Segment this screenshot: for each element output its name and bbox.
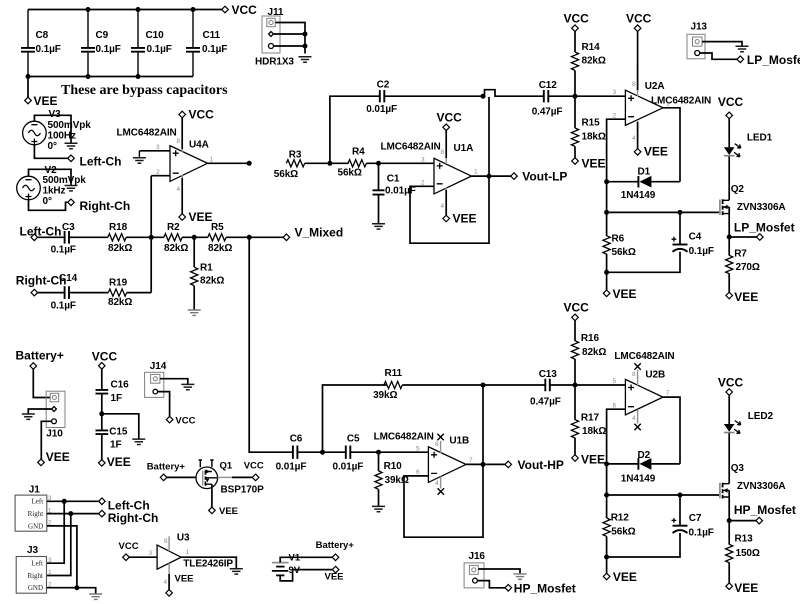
resistor R7 xyxy=(726,237,760,292)
wire C2 feedback left xyxy=(330,96,380,163)
svg-text:U2A: U2A xyxy=(645,81,665,92)
node VEE R17 xyxy=(572,453,605,467)
wire row1 b xyxy=(69,236,108,238)
node HP_Mosfet Q3 xyxy=(727,503,796,524)
wire V2 minus to ground xyxy=(29,169,72,185)
svg-text:J10: J10 xyxy=(46,428,63,439)
svg-text:82kΩ: 82kΩ xyxy=(208,243,232,254)
junction dot U1B out xyxy=(481,462,486,467)
svg-text:U1A: U1A xyxy=(454,143,474,154)
wire J10 pin2 to ground xyxy=(28,409,51,414)
svg-text:1N4149: 1N4149 xyxy=(621,474,656,485)
svg-text:0.1µF: 0.1µF xyxy=(689,246,714,257)
svg-text:R19: R19 xyxy=(109,278,128,289)
svg-text:500mVpk: 500mVpk xyxy=(48,120,92,131)
svg-text:3: 3 xyxy=(149,550,153,557)
wire J1 Right xyxy=(47,513,99,515)
capacitor C14 xyxy=(51,273,78,312)
svg-text:C12: C12 xyxy=(539,80,558,91)
ground U4A plus input xyxy=(133,151,146,163)
resistor R13 xyxy=(726,521,760,583)
node Right-Ch (V2) xyxy=(68,199,130,213)
junction dot C13/R16 xyxy=(573,383,578,388)
wire J11 pin3 xyxy=(274,45,305,47)
wire U2B minus rail xyxy=(607,409,626,495)
wire J11 pin2 xyxy=(274,33,305,35)
svg-text:0°: 0° xyxy=(48,141,57,152)
svg-text:8: 8 xyxy=(632,81,636,88)
svg-text:VCC: VCC xyxy=(232,3,258,17)
svg-text:J1: J1 xyxy=(29,484,40,495)
ground U3 xyxy=(230,569,243,574)
wire Battery+ to Q1 xyxy=(167,476,196,478)
ground R1 xyxy=(188,310,201,315)
capacitor C2 xyxy=(366,80,397,116)
svg-text:9V: 9V xyxy=(289,565,301,576)
wire J10 pin3 to VEE xyxy=(41,421,51,459)
junction dot GND xyxy=(74,585,79,590)
svg-text:Left: Left xyxy=(31,560,43,568)
svg-text:4: 4 xyxy=(441,203,445,210)
svg-text:1: 1 xyxy=(186,549,190,556)
wire U2A minus rail xyxy=(607,119,626,212)
node VEE R7 xyxy=(726,290,758,304)
svg-text:VEE: VEE xyxy=(734,290,758,304)
svg-text:ZVN3306A: ZVN3306A xyxy=(737,481,786,492)
svg-text:6: 6 xyxy=(416,469,420,476)
op-amp U2B xyxy=(613,351,675,430)
node LP_Mosfet Q2 xyxy=(727,221,795,241)
svg-text:500mVpk: 500mVpk xyxy=(43,175,87,186)
node VEE J10 xyxy=(38,450,70,466)
wire R6/C4 bottom xyxy=(607,252,680,272)
ground J14 xyxy=(181,384,194,389)
svg-text:J13: J13 xyxy=(691,22,708,33)
svg-text:7: 7 xyxy=(666,390,670,397)
node LP_Mosfet J13 xyxy=(737,53,800,67)
svg-text:Right-Ch: Right-Ch xyxy=(108,511,159,525)
wire V_Mixed down to HP input xyxy=(249,237,292,452)
wire Q1 to VEE xyxy=(211,484,213,507)
node VEE U1A xyxy=(443,190,477,225)
wire C5 to U1B plus xyxy=(351,451,429,453)
node VCC U4A xyxy=(179,108,214,150)
node Right-Ch input row xyxy=(16,274,67,296)
svg-text:0.01µF: 0.01µF xyxy=(366,104,397,115)
wire C2 to hop xyxy=(385,95,484,97)
svg-text:R17: R17 xyxy=(581,412,600,423)
svg-text:GND: GND xyxy=(28,584,43,592)
wire U1A feedback xyxy=(410,97,489,243)
svg-text:150Ω: 150Ω xyxy=(736,548,760,559)
svg-text:56kΩ: 56kΩ xyxy=(274,169,298,180)
svg-text:1: 1 xyxy=(48,569,52,576)
svg-text:V_Mixed: V_Mixed xyxy=(295,226,344,240)
svg-text:U4A: U4A xyxy=(189,140,209,151)
svg-text:U2B: U2B xyxy=(645,370,665,381)
svg-text:Left-Ch: Left-Ch xyxy=(20,225,62,239)
svg-text:VEE: VEE xyxy=(453,211,477,225)
svg-text:1kHz: 1kHz xyxy=(43,186,66,197)
node VEE R15 xyxy=(572,157,606,171)
svg-text:8: 8 xyxy=(177,138,181,145)
svg-text:Q3: Q3 xyxy=(731,463,745,474)
regulator U3 xyxy=(149,533,234,587)
junction dot D1 left xyxy=(604,179,609,184)
svg-text:R5: R5 xyxy=(211,222,224,233)
svg-text:C16: C16 xyxy=(111,380,130,391)
svg-text:C14: C14 xyxy=(59,273,78,284)
svg-text:8: 8 xyxy=(164,538,168,545)
wire U1A output xyxy=(471,175,510,177)
node VCC LED1 xyxy=(718,95,744,119)
svg-text:HDR1X3: HDR1X3 xyxy=(255,57,294,68)
svg-text:8: 8 xyxy=(441,149,445,156)
wire U4A minus input xyxy=(151,175,170,177)
junction dot J1 Right xyxy=(68,511,73,516)
wire J16 pin1 to ground xyxy=(478,569,520,573)
svg-text:C7: C7 xyxy=(689,513,702,524)
op-amp U4A xyxy=(117,122,214,193)
resistor R19 xyxy=(108,278,132,309)
svg-text:R13: R13 xyxy=(735,534,754,545)
svg-text:0.1µF: 0.1µF xyxy=(51,301,76,312)
junction dot R12 bottom xyxy=(604,555,609,560)
svg-text:56kΩ: 56kΩ xyxy=(338,168,362,179)
wire J3 Right up xyxy=(47,514,71,576)
svg-text:R15: R15 xyxy=(582,118,601,129)
svg-text:C15: C15 xyxy=(109,427,128,438)
svg-text:82kΩ: 82kΩ xyxy=(164,243,188,254)
node Right-Ch J1 xyxy=(99,510,159,525)
node VCC R14 xyxy=(564,12,590,32)
junction dots bypass xyxy=(26,7,196,79)
node VEE R12 xyxy=(603,557,637,584)
svg-text:8: 8 xyxy=(435,441,439,448)
source V2 xyxy=(17,165,87,207)
junction dot R11/out rail xyxy=(481,383,486,388)
resistor R2 xyxy=(164,222,189,254)
svg-text:R18: R18 xyxy=(109,222,128,233)
battery V1 xyxy=(272,553,301,577)
svg-text:VEE: VEE xyxy=(582,157,606,171)
svg-text:4: 4 xyxy=(435,480,439,487)
svg-text:82kΩ: 82kΩ xyxy=(200,276,224,287)
node VCC U3 xyxy=(119,541,139,561)
wire bypass top rail xyxy=(28,9,225,11)
wire U2A output xyxy=(663,108,680,182)
ground J16 xyxy=(514,574,527,579)
svg-text:Right-Ch: Right-Ch xyxy=(80,199,131,213)
svg-text:VEE: VEE xyxy=(107,455,131,469)
svg-text:1N4149: 1N4149 xyxy=(621,190,656,201)
svg-text:HP_Mosfet: HP_Mosfet xyxy=(514,581,576,595)
svg-text:C11: C11 xyxy=(203,30,221,41)
connector J14 xyxy=(145,361,167,398)
svg-text:VEE: VEE xyxy=(734,581,758,595)
svg-text:VCC: VCC xyxy=(564,12,590,26)
node VCC J14 xyxy=(166,415,195,426)
svg-text:3: 3 xyxy=(48,557,52,564)
wire row1 d xyxy=(182,236,208,238)
svg-text:Right: Right xyxy=(27,572,43,580)
svg-text:R16: R16 xyxy=(581,333,600,344)
svg-text:C6: C6 xyxy=(290,434,303,445)
svg-text:C5: C5 xyxy=(347,434,360,445)
junction dots row1 xyxy=(149,161,252,240)
ground C1 xyxy=(372,224,385,229)
svg-text:R4: R4 xyxy=(352,147,365,158)
wire row2 b xyxy=(69,292,108,294)
node Left-Ch J1 xyxy=(99,498,150,513)
junction dots gate row HP xyxy=(604,493,682,498)
junction dots mid row xyxy=(327,161,381,166)
wire U1B output xyxy=(466,463,505,465)
node VCC U2A xyxy=(626,12,652,91)
svg-text:R12: R12 xyxy=(611,513,630,524)
ground V3 xyxy=(65,143,78,148)
wire gate row HP xyxy=(607,494,719,496)
svg-text:C1: C1 xyxy=(387,174,400,185)
svg-text:18kΩ: 18kΩ xyxy=(582,132,606,143)
svg-text:R6: R6 xyxy=(612,234,625,245)
svg-text:0.1µF: 0.1µF xyxy=(147,44,172,55)
wire J16 pin2 xyxy=(477,581,505,588)
svg-text:VEE: VEE xyxy=(189,210,213,224)
junction dot D2 left xyxy=(604,461,609,466)
svg-text:0.1µF: 0.1µF xyxy=(96,44,121,55)
wire C16/C15 mid to ground xyxy=(102,414,139,439)
svg-text:C2: C2 xyxy=(377,80,390,91)
mosfet Q3 xyxy=(720,463,786,499)
wire J13 pin1 to ground xyxy=(702,42,742,46)
op-amp U1A xyxy=(381,132,479,210)
capacitor C11 xyxy=(186,10,227,77)
svg-text:U3: U3 xyxy=(177,533,190,544)
svg-text:U1B: U1B xyxy=(449,436,469,447)
node Battery+ J10 xyxy=(16,349,64,370)
svg-text:C10: C10 xyxy=(146,30,165,41)
node VCC LED2 xyxy=(718,376,744,396)
svg-text:VEE: VEE xyxy=(613,570,637,584)
wire J14 pin2 to VCC xyxy=(158,392,170,417)
node Battery+ Q1 xyxy=(147,462,186,481)
wire row2 a xyxy=(38,292,65,294)
svg-text:4: 4 xyxy=(632,135,636,142)
ground J10 xyxy=(22,414,35,419)
resistor R18 xyxy=(108,222,133,254)
svg-text:0.47µF: 0.47µF xyxy=(530,397,561,408)
node VEE V1 xyxy=(325,566,344,582)
svg-text:Left-Ch: Left-Ch xyxy=(80,155,122,169)
svg-text:1F: 1F xyxy=(111,393,122,404)
svg-text:82kΩ: 82kΩ xyxy=(108,243,132,254)
wire J1 Left xyxy=(47,500,99,502)
resistor R10 xyxy=(375,452,409,506)
node VEE Q1 xyxy=(209,506,238,517)
wire bypass bottom rail xyxy=(28,76,193,78)
svg-text:BSP170P: BSP170P xyxy=(221,484,265,495)
svg-text:D2: D2 xyxy=(638,450,651,461)
junction dot node A xyxy=(320,450,325,455)
resistor R12 xyxy=(603,495,636,557)
resistor R3 xyxy=(274,150,305,181)
svg-text:LP_Mosfet: LP_Mosfet xyxy=(747,53,800,67)
svg-text:VCC: VCC xyxy=(437,110,463,124)
resistor R11 xyxy=(373,368,402,401)
wire V1 plus to Battery+ xyxy=(280,557,332,562)
capacitor C15 xyxy=(96,414,128,460)
wire U3 output to ground xyxy=(181,557,236,568)
wire row1 e xyxy=(226,236,283,238)
svg-text:C13: C13 xyxy=(539,369,558,380)
wire J3 Left up xyxy=(47,501,65,563)
svg-text:0.01µF: 0.01µF xyxy=(276,462,307,473)
svg-text:3: 3 xyxy=(421,157,425,164)
node VCC C16 xyxy=(92,350,118,370)
capacitor C3 xyxy=(51,222,76,256)
wire R4 right to U1A plus xyxy=(366,162,434,164)
resistor R16 xyxy=(571,321,606,385)
node VCC top xyxy=(222,3,257,17)
svg-text:VEE: VEE xyxy=(175,574,194,585)
wire U4A plus input xyxy=(139,150,170,152)
svg-text:Battery+: Battery+ xyxy=(147,462,186,473)
svg-text:0.1µF: 0.1µF xyxy=(202,44,227,55)
wire row1 c xyxy=(126,236,164,238)
svg-text:82kΩ: 82kΩ xyxy=(582,347,606,358)
wire U4A output xyxy=(208,162,250,164)
svg-text:0.47µF: 0.47µF xyxy=(532,106,563,117)
wire Q1 to VCC xyxy=(218,476,233,478)
node VEE bypass xyxy=(25,77,58,109)
svg-text:1: 1 xyxy=(666,101,670,108)
svg-text:C4: C4 xyxy=(689,232,702,243)
node Battery+ V1 xyxy=(316,540,355,560)
svg-text:VCC: VCC xyxy=(564,301,590,315)
wire J11 pin1 xyxy=(276,23,306,54)
resistor R15 xyxy=(571,96,605,157)
capacitor C8 xyxy=(21,10,61,77)
wire C13 to U2B plus xyxy=(550,384,625,386)
ground V2 xyxy=(65,186,78,191)
node VEE U2A xyxy=(634,122,668,158)
ground J3 xyxy=(89,594,102,599)
svg-text:0°: 0° xyxy=(43,196,52,207)
connector J3 xyxy=(16,545,52,593)
svg-text:4: 4 xyxy=(164,579,168,586)
wire Q2 source xyxy=(728,207,730,237)
wire R11 branch up xyxy=(323,385,387,452)
wire U2B output xyxy=(663,397,680,464)
svg-text:These are bypass capacitors: These are bypass capacitors xyxy=(61,83,228,98)
svg-text:82kΩ: 82kΩ xyxy=(582,56,606,67)
node Vout-HP xyxy=(505,458,564,472)
svg-text:ZVN3306A: ZVN3306A xyxy=(737,202,786,213)
resistor R5 xyxy=(208,222,233,254)
diode D1 xyxy=(607,166,680,201)
wire R11 right xyxy=(402,384,545,386)
wire row2 c xyxy=(127,292,152,294)
svg-text:D1: D1 xyxy=(638,166,651,177)
ground C15/C16 xyxy=(132,439,145,444)
wire row1 a xyxy=(38,236,65,238)
svg-text:VEE: VEE xyxy=(613,287,637,301)
svg-text:18kΩ: 18kΩ xyxy=(582,426,606,437)
svg-text:39kΩ: 39kΩ xyxy=(373,390,397,401)
svg-text:0.01µF: 0.01µF xyxy=(333,462,364,473)
junction dot U1A out xyxy=(487,174,492,179)
wire V3 minus to ground xyxy=(34,115,71,143)
wire J14 pin1 to ground xyxy=(160,379,188,384)
svg-text:Battery+: Battery+ xyxy=(316,540,355,551)
capacitor C6 xyxy=(276,434,307,473)
connector J1 xyxy=(15,484,52,531)
node HP_Mosfet J16 xyxy=(505,581,576,595)
wire V2 plus to Right-Ch xyxy=(29,200,68,211)
svg-text:0.1µF: 0.1µF xyxy=(36,44,61,55)
node VCC U1A xyxy=(437,110,463,158)
svg-text:C8: C8 xyxy=(36,30,49,41)
wire gate row LP xyxy=(607,211,719,213)
svg-text:VCC: VCC xyxy=(189,108,215,122)
junction dot C12/R14 xyxy=(573,94,578,99)
svg-text:J14: J14 xyxy=(150,361,167,372)
junction dot C16/C15 xyxy=(99,411,104,416)
node Left-Ch input row xyxy=(20,225,62,241)
capacitor C5 xyxy=(333,434,364,473)
svg-text:R2: R2 xyxy=(167,222,180,233)
diode D2 xyxy=(607,450,680,485)
svg-text:0.1µF: 0.1µF xyxy=(51,245,76,256)
svg-text:1: 1 xyxy=(474,169,478,176)
junction dot R10 top xyxy=(376,450,381,455)
wire U3 pin4 to VEE xyxy=(168,574,170,590)
connector J10 xyxy=(46,391,65,439)
wire hop xyxy=(483,90,544,97)
wire C6 to C5 xyxy=(298,451,346,453)
svg-text:56kΩ: 56kΩ xyxy=(612,247,636,258)
svg-text:5: 5 xyxy=(416,446,420,453)
wire Battery+ to J10 pin1 xyxy=(33,369,50,397)
resistor R6 xyxy=(603,212,636,272)
node VCC R16 xyxy=(564,301,590,321)
wire Q2 drain xyxy=(728,156,730,200)
svg-text:7: 7 xyxy=(469,457,473,464)
svg-text:VEE: VEE xyxy=(581,453,605,467)
svg-text:8: 8 xyxy=(632,371,636,378)
svg-text:C9: C9 xyxy=(96,30,109,41)
svg-text:VCC: VCC xyxy=(175,415,195,426)
svg-text:LMC6482AIN: LMC6482AIN xyxy=(117,128,177,139)
transistor Q1 xyxy=(196,460,264,496)
capacitor C12 xyxy=(532,80,563,117)
svg-text:270Ω: 270Ω xyxy=(736,262,760,273)
op-amp U2A xyxy=(613,64,712,142)
svg-text:R10: R10 xyxy=(384,461,403,472)
svg-text:R3: R3 xyxy=(289,150,302,161)
junction dot R6 bottom xyxy=(604,270,609,275)
svg-text:VEE: VEE xyxy=(34,94,58,108)
svg-text:VCC: VCC xyxy=(92,350,118,364)
mosfet Q2 xyxy=(720,184,786,215)
svg-text:LED2: LED2 xyxy=(748,411,774,422)
svg-text:C3: C3 xyxy=(62,222,75,233)
svg-text:R14: R14 xyxy=(582,42,601,53)
svg-text:1F: 1F xyxy=(110,440,121,451)
capacitor C7 xyxy=(672,495,714,538)
wire C12 to U2A plus xyxy=(549,95,626,97)
